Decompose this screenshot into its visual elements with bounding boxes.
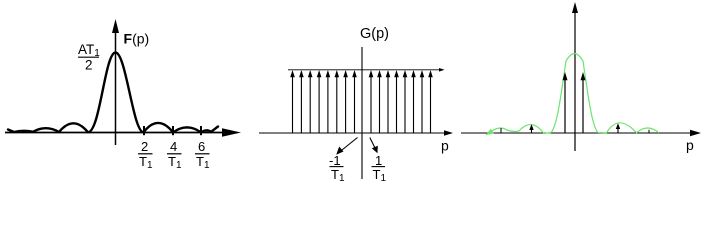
green arrowhead at curve left end [486, 129, 494, 136]
small impulse at -3/T1 [529, 124, 533, 133]
comb impulse 13 [403, 70, 408, 133]
label AT1/2 fraction [78, 42, 100, 73]
comb impulse 2 [299, 70, 304, 133]
tick 6/T1 [200, 126, 202, 135]
comb impulse 1 [290, 70, 295, 133]
label 4/T1 [167, 139, 182, 171]
label 2/T1 [138, 139, 153, 171]
svg-text:p: p [441, 138, 449, 154]
tick 2/T1 [143, 126, 145, 135]
svg-text:6: 6 [198, 139, 205, 154]
comb impulse 12 [394, 70, 399, 133]
top envelope line with arrow [288, 68, 445, 72]
callout arrow to -1/T1 [336, 138, 357, 155]
svg-text:2: 2 [141, 139, 148, 154]
y axis (right plot) [572, 2, 578, 151]
green envelope curve [488, 54, 659, 134]
svg-text:1: 1 [375, 153, 382, 168]
small impulse at 3/T1 [616, 123, 620, 133]
x axis (right plot) [461, 130, 701, 136]
comb impulse 11 [386, 70, 391, 133]
comb impulse 14 [411, 70, 416, 133]
comb impulse 7 [343, 70, 348, 133]
svg-text:-1: -1 [329, 153, 341, 168]
label 6/T1 [195, 139, 210, 171]
comb impulse 5 [326, 70, 331, 133]
comb impulse 10 [377, 70, 382, 133]
svg-text:p: p [686, 137, 694, 153]
tiny tick at 5/T1 [648, 130, 650, 134]
svg-text:2: 2 [85, 58, 93, 73]
tiny tick at -5/T1 [500, 128, 502, 133]
comb impulse 9 [369, 70, 374, 133]
callout arrow to 1/T1 [370, 138, 378, 154]
tall impulse at -1/T1 [563, 72, 568, 133]
x axis (middle plot) [259, 130, 453, 136]
comb impulse 16 [428, 70, 433, 133]
comb impulse 6 [335, 70, 340, 133]
sinc curve (left plot) [8, 53, 218, 133]
comb impulse 4 [317, 70, 322, 133]
tall impulse at 1/T1 [581, 72, 586, 133]
svg-text:F(p): F(p) [124, 31, 150, 47]
tick 4/T1 [172, 126, 174, 135]
y axis (left plot) [112, 19, 119, 145]
comb impulse 3 [308, 70, 313, 133]
label 1/T1 [372, 153, 387, 184]
label -1/T1 [329, 153, 345, 184]
comb impulse 8 [352, 70, 357, 133]
svg-text:G(p): G(p) [360, 26, 389, 42]
x axis (left plot) [5, 128, 241, 137]
y axis (middle plot) [361, 47, 363, 179]
svg-text:4: 4 [170, 139, 177, 154]
comb impulse 15 [420, 70, 425, 133]
